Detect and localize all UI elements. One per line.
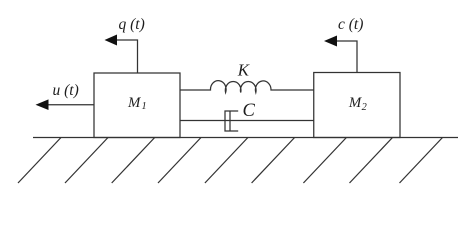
ground line <box>33 137 458 139</box>
ground hatch 3 <box>112 138 155 184</box>
svg-text:M: M <box>348 95 362 111</box>
arrowhead c(t) <box>324 36 337 47</box>
damper C cylinder <box>225 111 238 131</box>
ground hatch 8 <box>350 138 393 184</box>
ground hatch 7 <box>303 138 346 184</box>
force u(t) wire <box>48 104 95 106</box>
svg-text:M: M <box>127 95 141 111</box>
svg-text:1: 1 <box>142 101 147 112</box>
sensor q(t) wire <box>116 40 138 73</box>
svg-text:u (t): u (t) <box>53 82 79 99</box>
ground hatch 6 <box>252 138 295 184</box>
ground hatch 5 <box>205 138 248 184</box>
svg-text:2: 2 <box>362 102 367 113</box>
ground hatch 2 <box>65 138 108 184</box>
svg-text:c (t): c (t) <box>338 16 363 33</box>
mass M2 box <box>314 73 400 138</box>
svg-text:K: K <box>237 61 250 80</box>
mass M1 box <box>94 73 180 138</box>
ground hatch 9 <box>400 138 443 184</box>
svg-text:q (t): q (t) <box>119 16 145 33</box>
arrowhead q(t) <box>105 35 118 46</box>
spring K coil and connecting wire <box>180 81 314 93</box>
damper rod wire <box>180 120 314 122</box>
sensor c(t) wire <box>335 41 357 73</box>
ground hatch 1 <box>18 138 61 184</box>
ground hatch 4 <box>158 138 201 184</box>
arrowhead u(t) <box>36 99 49 110</box>
svg-text:C: C <box>243 101 256 121</box>
damper C piston <box>229 111 231 131</box>
